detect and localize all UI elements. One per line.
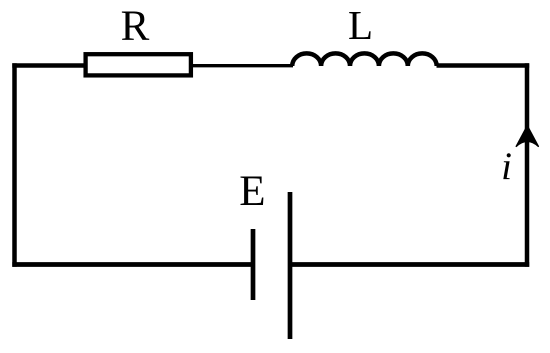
wire right vertical (525, 63, 530, 266)
svg-text:i: i (501, 145, 512, 188)
battery E long plate (288, 192, 293, 339)
current arrow i (516, 126, 538, 147)
wire resistor to inductor (190, 64, 293, 67)
wire inductor to right corner (437, 63, 530, 68)
wire top left (12, 63, 86, 68)
svg-text:L: L (348, 2, 373, 48)
wire bottom left (12, 262, 253, 267)
svg-text:E: E (239, 168, 265, 215)
inductor L (292, 53, 436, 66)
resistor R (86, 54, 191, 75)
svg-text:R: R (121, 3, 150, 50)
battery E short plate (251, 229, 256, 300)
wire bottom right (290, 262, 529, 267)
wire left vertical (12, 63, 17, 266)
